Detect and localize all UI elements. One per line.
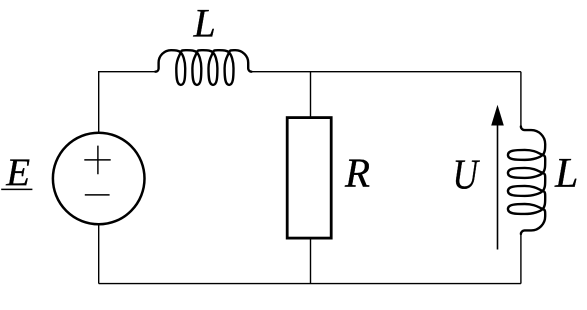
svg-text:E: E: [5, 151, 30, 194]
wire right branch upper: [520, 72, 522, 127]
voltage arrow U line: [497, 122, 499, 250]
minus sign: [85, 194, 110, 196]
plus sign: [84, 146, 110, 175]
wire right branch lower: [520, 234, 522, 284]
inductor L right coil: [508, 127, 545, 235]
wire top left: [99, 71, 156, 73]
wire top right: [251, 71, 521, 73]
svg-text:L: L: [554, 151, 578, 197]
voltage source U1 circle: [53, 133, 145, 225]
label E underline: [1, 188, 32, 190]
wire bottom: [99, 283, 521, 285]
svg-text:U: U: [453, 153, 481, 199]
wire left branch: [98, 71, 100, 284]
svg-text:L: L: [193, 1, 216, 46]
inductor L top coil: [155, 50, 251, 85]
voltage arrow U head: [491, 105, 504, 126]
wire middle branch: [310, 72, 312, 284]
svg-text:R: R: [344, 150, 370, 196]
resistor R body: [287, 118, 331, 239]
